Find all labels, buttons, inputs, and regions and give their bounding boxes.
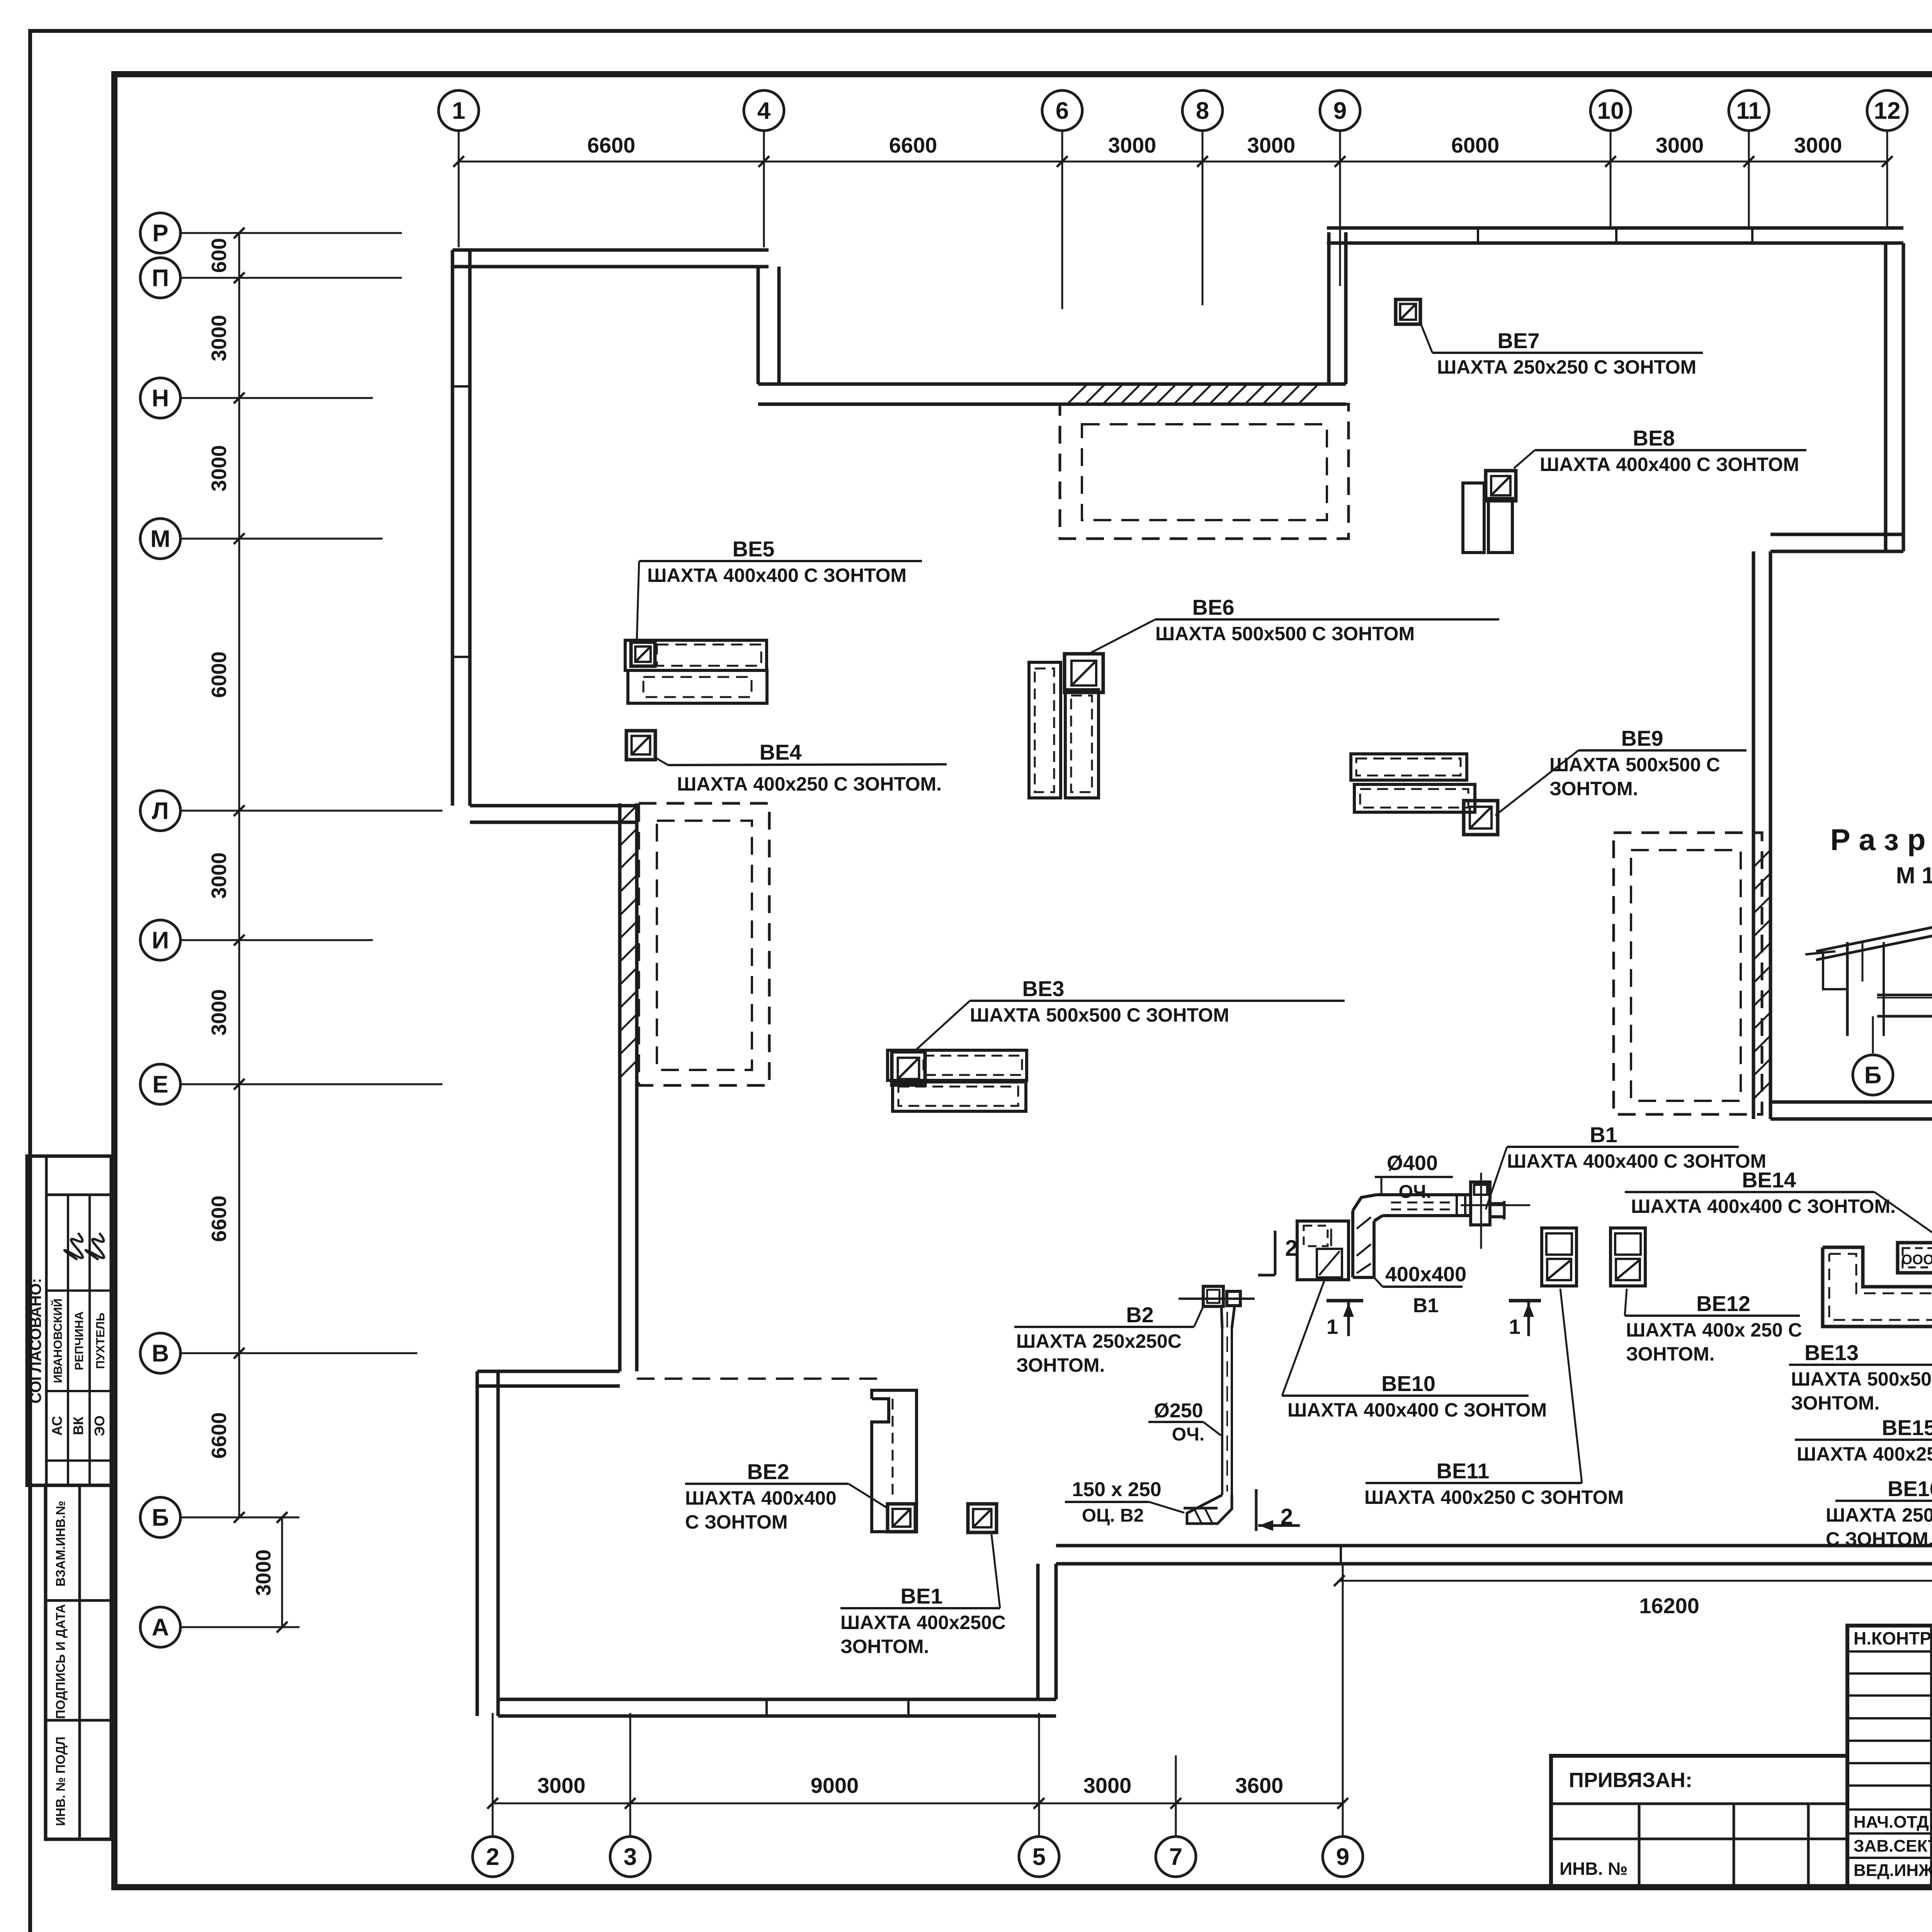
svg-text:ВЕ16: ВЕ16 [1888,1476,1932,1501]
svg-text:Ø250: Ø250 [1154,1400,1203,1422]
svg-text:ВЕ6: ВЕ6 [1192,595,1235,619]
svg-text:ШАХТА 500x500 С: ШАХТА 500x500 С [1549,754,1720,776]
svg-text:ШАХТА 400x250С: ШАХТА 400x250С [840,1612,1006,1633]
svg-text:3000: 3000 [207,989,231,1036]
svg-text:ПУХТЕЛЬ: ПУХТЕЛЬ [94,1313,107,1369]
svg-text:В2: В2 [1126,1303,1154,1327]
svg-text:3000: 3000 [207,852,231,899]
svg-text:ШАХТА 400x400: ШАХТА 400x400 [685,1487,837,1509]
svg-text:ШАХТА 250x250 С ЗОНТОМ: ШАХТА 250x250 С ЗОНТОМ [1437,356,1696,378]
svg-text:3000: 3000 [1656,133,1704,157]
svg-text:3000: 3000 [537,1773,586,1798]
svg-text:М 1:50: М 1:50 [1896,862,1932,888]
svg-text:600: 600 [207,238,231,273]
svg-text:И: И [152,927,169,954]
svg-text:2: 2 [486,1844,499,1871]
svg-text:3000: 3000 [207,445,231,492]
svg-text:Б: Б [1864,1062,1882,1089]
svg-text:РЕПЧИНА: РЕПЧИНА [72,1311,86,1370]
svg-text:ЗОНТОМ.: ЗОНТОМ. [1549,778,1638,799]
svg-text:Р: Р [152,220,168,247]
svg-text:ВЕ5: ВЕ5 [733,537,775,561]
svg-text:П: П [152,265,169,292]
svg-text:Н.КОНТР.: Н.КОНТР. [1854,1628,1932,1648]
svg-text:9000: 9000 [811,1773,859,1798]
svg-text:В1: В1 [1590,1122,1617,1147]
svg-text:ВЕ2: ВЕ2 [747,1459,789,1484]
svg-text:1: 1 [1509,1315,1520,1338]
svg-text:ШАХТА 500x500 С ЗОНТОМ: ШАХТА 500x500 С ЗОНТОМ [1155,623,1415,645]
svg-text:8: 8 [1196,98,1209,124]
svg-text:ШАХТА 500x500 С: ШАХТА 500x500 С [1791,1368,1932,1390]
svg-text:Б: Б [152,1505,169,1531]
svg-text:Р а з р е з 2-2: Р а з р е з 2-2 [1830,823,1932,857]
svg-text:3000: 3000 [207,315,231,361]
svg-text:ВЕ11: ВЕ11 [1437,1459,1490,1483]
svg-text:НАЧ.ОТД.: НАЧ.ОТД. [1854,1813,1932,1832]
svg-text:ШАХТА 400x400 С ЗОНТОМ: ШАХТА 400x400 С ЗОНТОМ [647,565,906,586]
svg-text:ВЕ4: ВЕ4 [760,740,802,764]
svg-text:150 x 250: 150 x 250 [1072,1478,1161,1501]
svg-text:9: 9 [1336,1844,1349,1871]
svg-text:ВЕ9: ВЕ9 [1621,726,1663,750]
svg-text:ИВАНОВСКИЙ: ИВАНОВСКИЙ [51,1298,65,1383]
svg-text:ВЕ14: ВЕ14 [1742,1168,1796,1192]
svg-text:ВЕ7: ВЕ7 [1498,328,1540,353]
svg-text:3000: 3000 [1794,133,1842,157]
svg-text:6000: 6000 [1451,133,1500,157]
svg-text:ООО: ООО [1901,1252,1932,1267]
svg-text:Ø400: Ø400 [1387,1151,1438,1175]
svg-text:ШАХТА 400x400 С ЗОНТОМ: ШАХТА 400x400 С ЗОНТОМ [1507,1150,1766,1172]
svg-text:ПРИВЯЗАН:: ПРИВЯЗАН: [1569,1769,1692,1792]
svg-text:ЗОНТОМ.: ЗОНТОМ. [1791,1392,1879,1414]
svg-text:6600: 6600 [207,1196,231,1242]
svg-text:ЗОНТОМ.: ЗОНТОМ. [1016,1354,1105,1376]
svg-text:5: 5 [1032,1844,1046,1871]
svg-text:ЗАВ.СЕКТ: ЗАВ.СЕКТ [1854,1837,1932,1855]
svg-text:16200: 16200 [1639,1594,1699,1618]
svg-text:ВЕД.ИНЖ: ВЕД.ИНЖ [1854,1861,1932,1880]
svg-text:ИНВ. № ПОДЛ: ИНВ. № ПОДЛ [53,1736,68,1826]
svg-text:ПОДПИСЬ И ДАТА: ПОДПИСЬ И ДАТА [53,1604,68,1719]
svg-text:6600: 6600 [207,1412,231,1459]
svg-text:6600: 6600 [889,133,937,157]
svg-text:3000: 3000 [1247,133,1296,157]
svg-text:ШАХТА 250x250: ШАХТА 250x250 [1826,1504,1932,1526]
svg-text:6000: 6000 [207,651,231,698]
svg-text:ВЗАМ.ИНВ.№: ВЗАМ.ИНВ.№ [53,1501,68,1587]
svg-text:3600: 3600 [1235,1773,1284,1798]
svg-text:12: 12 [1874,98,1901,124]
svg-text:ШАХТА 250x250С: ШАХТА 250x250С [1016,1330,1182,1352]
svg-text:6: 6 [1056,98,1069,124]
svg-text:2: 2 [1285,1236,1298,1261]
svg-text:Н: Н [152,385,169,412]
svg-text:ШАХТА 500x500 С ЗОНТОМ: ШАХТА 500x500 С ЗОНТОМ [970,1004,1229,1026]
svg-text:ВЕ3: ВЕ3 [1022,976,1065,1001]
svg-text:11: 11 [1736,98,1762,124]
svg-text:ШАХТА 400x250 С ЗОНТОМ: ШАХТА 400x250 С ЗОНТОМ [1797,1443,1932,1465]
svg-text:ОЧ.: ОЧ. [1399,1182,1431,1202]
svg-text:М: М [150,526,170,553]
svg-text:9: 9 [1333,98,1347,124]
svg-text:Е: Е [152,1071,168,1098]
svg-text:ШАХТА 400x400 С ЗОНТОМ.: ШАХТА 400x400 С ЗОНТОМ. [1631,1196,1896,1217]
svg-text:4: 4 [757,98,771,124]
svg-text:В1: В1 [1413,1294,1439,1317]
svg-text:ОЦ. В2: ОЦ. В2 [1082,1505,1144,1526]
svg-text:3: 3 [624,1844,637,1871]
svg-text:3000: 3000 [252,1549,275,1596]
svg-text:ВК: ВК [70,1416,86,1435]
svg-text:ШАХТА 400x250 С ЗОНТОМ: ШАХТА 400x250 С ЗОНТОМ [1364,1486,1624,1508]
svg-text:А: А [152,1614,169,1641]
svg-text:400x400: 400x400 [1385,1263,1466,1286]
svg-text:ЗОНТОМ.: ЗОНТОМ. [1626,1343,1714,1365]
svg-text:ВЕ15: ВЕ15 [1882,1415,1932,1440]
svg-text:1: 1 [452,98,465,124]
svg-text:Л: Л [152,798,169,825]
svg-text:ЗОНТОМ.: ЗОНТОМ. [840,1636,929,1657]
svg-text:3000: 3000 [1108,133,1156,157]
svg-text:ШАХТА 400x250 С ЗОНТОМ.: ШАХТА 400x250 С ЗОНТОМ. [677,773,942,795]
svg-text:ВЕ8: ВЕ8 [1633,426,1675,450]
svg-text:СОГЛАСОВАНО:: СОГЛАСОВАНО: [27,1278,44,1404]
svg-text:ВЕ10: ВЕ10 [1381,1371,1435,1396]
svg-text:3000: 3000 [1083,1773,1132,1798]
svg-text:10: 10 [1597,98,1624,124]
svg-text:ОЧ.: ОЧ. [1172,1424,1204,1445]
svg-text:АС: АС [49,1416,65,1435]
svg-text:6600: 6600 [587,133,636,157]
svg-text:ВЕ13: ВЕ13 [1804,1340,1859,1365]
svg-text:В: В [152,1340,169,1367]
svg-text:ВЕ12: ВЕ12 [1696,1291,1750,1316]
svg-text:1: 1 [1327,1315,1338,1338]
svg-text:ШАХТА 400x400 С ЗОНТОМ: ШАХТА 400x400 С ЗОНТОМ [1540,454,1799,475]
svg-text:ВЕ1: ВЕ1 [901,1584,943,1608]
svg-text:С ЗОНТОМ.: С ЗОНТОМ. [1826,1528,1932,1550]
svg-text:ИНВ. №: ИНВ. № [1560,1859,1628,1879]
svg-text:7: 7 [1169,1844,1182,1871]
svg-text:ШАХТА 400x 250 С: ШАХТА 400x 250 С [1626,1319,1802,1341]
svg-text:С ЗОНТОМ: С ЗОНТОМ [685,1511,788,1533]
svg-text:ШАХТА 400x400 С ЗОНТОМ: ШАХТА 400x400 С ЗОНТОМ [1287,1399,1547,1421]
svg-text:ЭО: ЭО [92,1415,107,1436]
